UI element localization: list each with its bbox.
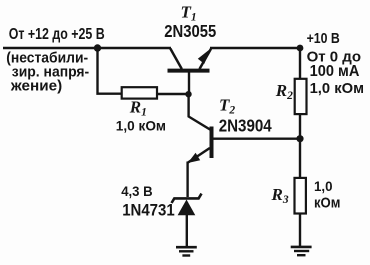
- svg-text:R2: R2: [275, 81, 293, 102]
- ground (zener): [176, 247, 197, 255]
- node D: R2/R3 divider junction: [296, 135, 303, 142]
- resistor R3: [295, 178, 306, 214]
- node C: +10V output junction: [297, 45, 304, 52]
- svg-text:1,0: 1,0: [314, 179, 333, 195]
- wire: output node down to R2: [299, 48, 301, 79]
- resistor R1: [122, 87, 157, 98]
- wire: divider node down to R3: [299, 139, 301, 178]
- svg-text:1N4731: 1N4731: [122, 201, 175, 220]
- resistor R2: [295, 79, 307, 114]
- wire: T2 base to divider node: [213, 137, 300, 139]
- node A: input junction: [94, 44, 101, 51]
- svg-text:R3: R3: [271, 185, 289, 206]
- wire: drop from input node to R1: [98, 48, 123, 94]
- wire: T2 emitter down to zener: [186, 162, 188, 198]
- wire: input rail top-left: [3, 47, 171, 49]
- wire: R3 bottom to ground: [299, 214, 301, 247]
- transistor T1 (2N3055): [168, 49, 212, 71]
- wire: node down to T2 collector: [189, 95, 211, 131]
- node B: T1 base junction: [185, 91, 191, 97]
- svg-text:1,0 кОм: 1,0 кОм: [116, 119, 166, 135]
- wire: R2 bottom to divider node: [299, 114, 301, 139]
- transistor T2 (2N3904): [188, 127, 212, 164]
- svg-text:2N3904: 2N3904: [219, 115, 272, 135]
- wire: T1 base lead down to node: [188, 71, 190, 95]
- svg-text:R1: R1: [129, 98, 147, 119]
- svg-text:жение): жение): [10, 79, 62, 95]
- svg-text:100 мА: 100 мА: [310, 63, 360, 80]
- svg-text:От +12 до +25 В: От +12 до +25 В: [9, 26, 105, 43]
- wire: zener to ground: [186, 215, 188, 247]
- svg-text:4,3 В: 4,3 В: [121, 184, 152, 200]
- svg-text:1,0 кОм: 1,0 кОм: [310, 81, 364, 97]
- wire: R1 right lead to base node: [157, 93, 189, 95]
- ground (R3): [291, 247, 312, 255]
- wire: T1 emitter to output node: [210, 47, 300, 49]
- svg-text:+10 В: +10 В: [307, 31, 340, 47]
- zener diode D1 (1N4731): [172, 194, 202, 216]
- svg-text:T2: T2: [219, 96, 235, 117]
- svg-text:2N3055: 2N3055: [164, 21, 216, 41]
- svg-text:кОм: кОм: [314, 196, 340, 212]
